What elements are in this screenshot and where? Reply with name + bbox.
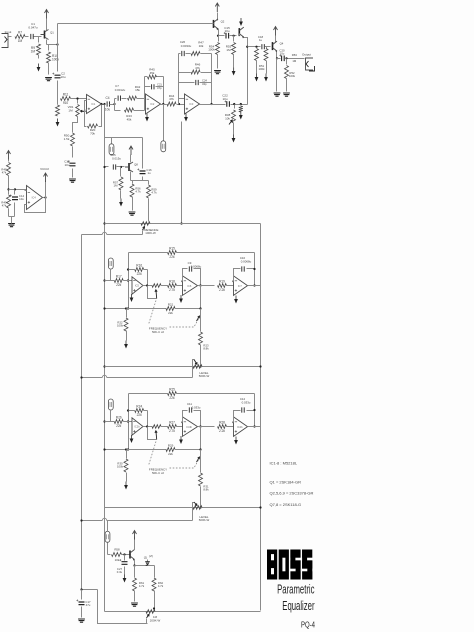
op-amp IC2b: [132, 418, 143, 436]
wire R49 bottom: [8, 209, 10, 217]
VB arrow below R12: [57, 119, 59, 123]
node IC1 out: [100, 103, 102, 105]
wire feedback down: [99, 105, 102, 127]
wire C21 to out: [156, 86, 164, 88]
wire IC4 out: [43, 197, 46, 199]
wire fb vertical: [147, 411, 149, 427]
svg-text:Q2,5,6,9 = 2SC3378-GR: Q2,5,6,9 = 2SC3378-GR: [270, 491, 314, 496]
svg-text:100k: 100k: [52, 58, 59, 62]
svg-text:100k: 100k: [117, 324, 124, 328]
svg-text:Q1: Q1: [50, 31, 54, 35]
svg-text:C21: C21: [157, 83, 162, 87]
svg-text:Q7,8 = 2SK118-G: Q7,8 = 2SK118-G: [270, 502, 302, 507]
wire to R22: [126, 309, 128, 318]
node mid out: [199, 284, 201, 286]
wire Q4 emitter: [276, 52, 278, 59]
wiper band gain: [155, 290, 157, 299]
wire Q3 base stub: [239, 34, 241, 36]
wire R10 top: [48, 45, 50, 51]
transistor Q9: [129, 551, 131, 559]
wire R55 down: [233, 55, 235, 68]
wire right feedback vertical: [254, 394, 256, 427]
logo BOSS: [267, 550, 312, 580]
connector DC jack: [105, 531, 110, 542]
wire to C17: [81, 590, 83, 600]
wire to R58: [108, 554, 111, 556]
svg-text:47k: 47k: [169, 97, 174, 101]
wire R22 down: [126, 331, 128, 341]
node band out: [253, 425, 255, 427]
wire R56 top: [266, 47, 268, 49]
node after C15: [233, 35, 235, 37]
transistor Q3: [238, 28, 240, 36]
wire R22 down: [126, 473, 128, 482]
node Q9 emitter: [133, 564, 135, 566]
node Q2 emitter: [217, 35, 219, 37]
wire R9 top: [38, 37, 40, 43]
wire bus to R17: [105, 421, 115, 423]
wire band out to bus: [248, 285, 261, 287]
wire R48 to R49: [8, 176, 10, 195]
op-amp IC4 buffer: [27, 186, 43, 210]
node IC3 out: [210, 103, 212, 105]
wire branch down: [234, 105, 236, 109]
resistor R16: [135, 268, 144, 272]
transistor Q4: [272, 42, 274, 50]
wire bottom join: [9, 216, 15, 218]
wire bias to IC4+: [9, 189, 27, 191]
wiper freq pot: [197, 316, 200, 321]
V+ rail at Q4: [274, 27, 278, 36]
node band IC1 out: [146, 284, 148, 286]
V+ rail at Q2: [215, 3, 219, 12]
wire wiper riser bottom: [146, 619, 148, 624]
wire oval down: [110, 411, 112, 422]
node row2 left: [103, 365, 105, 367]
wire IC4+ stub: [25, 190, 27, 192]
wire wiper riser 2: [193, 360, 195, 378]
node freq pot column: [199, 307, 201, 309]
node IC2 out: [162, 103, 164, 105]
VB arrow below R55: [233, 68, 235, 72]
wire C18 to Q4: [265, 46, 271, 48]
wire mid out: [198, 426, 215, 428]
svg-text:2.2k: 2.2k: [219, 429, 225, 433]
connector below IC2: [161, 141, 166, 152]
VB arrow below R22: [125, 482, 127, 486]
svg-text:0.047u: 0.047u: [28, 25, 38, 29]
wire to R55: [233, 36, 235, 42]
resistor R17: [114, 279, 123, 283]
ground below R54: [214, 71, 221, 74]
wire R52 top: [286, 59, 288, 65]
wire Q1 source to node: [47, 44, 58, 46]
svg-text:VCC/2: VCC/2: [40, 167, 49, 171]
VB arrow band IC2+: [180, 295, 182, 299]
wire top rail to Q2 base: [58, 23, 212, 25]
hop row2: [102, 377, 106, 379]
VB arrow below R9: [38, 64, 40, 68]
svg-text:1M: 1M: [226, 48, 231, 52]
resistor R10: [47, 52, 51, 63]
capacitor C27: [122, 562, 128, 565]
svg-text:70k: 70k: [90, 131, 95, 135]
wire feedback vertical: [163, 77, 165, 105]
capacitor C25: [113, 164, 115, 169]
node band inv: [127, 279, 129, 281]
gang dashed line: [149, 301, 157, 325]
svg-text:47k: 47k: [2, 204, 7, 208]
wire oval down: [110, 269, 112, 281]
wire Q3 emitter down: [244, 38, 248, 47]
node bus C25: [103, 166, 105, 168]
wire IC4 feedback: [25, 198, 46, 213]
svg-text:100k: 100k: [289, 74, 296, 78]
svg-text:R58: R58: [114, 548, 120, 552]
wire band top feedback right: [177, 252, 255, 254]
V+ arrow at Q3 collector: [240, 18, 242, 22]
wire down to ground: [276, 59, 278, 92]
svg-text:0.0068u: 0.0068u: [241, 260, 252, 264]
resistor R52: [285, 66, 289, 79]
svg-text:100k: 100k: [208, 48, 215, 52]
wire pot row 3: [105, 507, 261, 509]
wire Q9 emitter: [134, 560, 136, 566]
wiper row2: [194, 360, 197, 365]
wire R43 to node: [134, 110, 145, 112]
svg-text:Input: Input: [5, 30, 12, 34]
wire IC1 out: [100, 104, 105, 106]
wire band inv node vertical: [128, 394, 130, 450]
wire to right cap: [234, 269, 241, 282]
node bus band input: [103, 420, 105, 422]
wire wiper riser 3: [193, 503, 195, 521]
svg-text:10k: 10k: [225, 116, 230, 120]
VB arrow band IC3+: [235, 296, 237, 300]
wire C24 to right: [200, 82, 212, 84]
wire R42 to node: [137, 98, 145, 100]
node row3 return join: [80, 519, 82, 521]
node right inv: [232, 421, 234, 423]
op-amp IC5: [132, 277, 143, 295]
svg-text:IC5: IC5: [135, 284, 140, 288]
wire IC3 out: [200, 104, 226, 106]
node column bottom: [199, 506, 201, 508]
VCC/2 rail arrow: [44, 173, 48, 182]
resistor R48: [7, 163, 11, 176]
node right fb: [253, 409, 255, 411]
svg-text:IC1: IC1: [91, 102, 96, 106]
node R52 top: [285, 57, 287, 59]
node bias mid: [7, 188, 9, 190]
wire connector down: [107, 543, 109, 555]
resistor R29: [166, 448, 175, 452]
node C14 top: [14, 188, 16, 190]
svg-text:1M: 1M: [68, 108, 73, 112]
svg-text:IC4: IC4: [32, 196, 37, 200]
wire emitter to C18: [248, 46, 261, 48]
resistor R56b: [130, 184, 134, 197]
capacitor C14: [12, 197, 18, 200]
transistor Q2: [213, 20, 215, 28]
potentiometer LEVEL 1: [193, 365, 202, 369]
svg-text:47k: 47k: [195, 66, 200, 70]
svg-text:0.0012u: 0.0012u: [115, 88, 126, 92]
wire to R23: [200, 457, 202, 473]
svg-text:IC1-8 : M5218L: IC1-8 : M5218L: [270, 461, 298, 466]
svg-text:C4: C4: [105, 96, 109, 100]
svg-text:8.8k: 8.8k: [203, 488, 209, 492]
wiper freq pot: [197, 457, 200, 462]
wire band inv node vertical: [128, 253, 130, 309]
wire to R57: [120, 167, 122, 177]
capacitor C26: [182, 51, 184, 56]
wire cap to out: [194, 269, 201, 286]
wire column to pot row: [200, 487, 202, 508]
node after C22: [233, 103, 235, 105]
svg-text:IC2: IC2: [150, 102, 155, 106]
svg-text:0.033u: 0.033u: [242, 401, 251, 405]
wire to R12: [57, 99, 59, 105]
wire to R22: [126, 450, 128, 459]
node mid out: [199, 425, 201, 427]
resistor R39: [239, 106, 243, 112]
bus vertical x81: [81, 235, 83, 590]
wire IC3 bias column down: [181, 122, 183, 224]
wire column down: [200, 309, 202, 316]
wire down to C16: [142, 138, 144, 169]
node pot top join: [76, 97, 78, 99]
svg-text:0.015u: 0.015u: [112, 157, 121, 161]
resistor R56: [264, 49, 268, 61]
node column bottom: [199, 365, 201, 367]
resistor R31: [199, 473, 203, 486]
svg-text:10u: 10u: [64, 163, 69, 167]
capacitor C24: [196, 80, 198, 85]
wire to R61: [134, 566, 136, 578]
wire R57 down: [120, 191, 122, 199]
wire presence row: [105, 223, 261, 225]
capacitor C2: [55, 75, 61, 78]
potentiometer VOLUME: [146, 610, 155, 614]
wire cap right: [247, 268, 255, 270]
svg-text:4.7k: 4.7k: [135, 190, 141, 194]
resistor R59: [147, 185, 151, 198]
capacitor band C right: [242, 266, 244, 271]
node Output jack: [306, 58, 314, 70]
node bus presence: [103, 222, 105, 224]
wire R9 bottom: [38, 55, 40, 59]
wire C27 down: [124, 567, 126, 575]
wire C2 to R11: [57, 81, 59, 99]
wire C4 to IC2 net: [110, 104, 115, 106]
wire pot row 2: [105, 366, 261, 368]
wiper VR1: [80, 110, 85, 112]
wire mute row: [131, 180, 149, 182]
wire row3 return: [82, 520, 193, 522]
wire to C27: [124, 555, 126, 561]
potentiometer band gain: [152, 284, 161, 288]
wire IC3 inv node vertical: [178, 54, 180, 105]
wire IC3 feedback vertical: [211, 54, 213, 105]
svg-text:(2): (2): [144, 556, 148, 560]
wire R19 to IC right: [227, 426, 234, 428]
wire to C15: [219, 35, 225, 37]
svg-text:200K-W: 200K-W: [150, 618, 161, 622]
wire wiper L: [148, 427, 157, 440]
node bus band input: [103, 279, 105, 281]
node right fb: [253, 268, 255, 270]
svg-text:22k: 22k: [116, 424, 122, 428]
ground below C17: [78, 619, 85, 622]
VB arrow band IC1+: [131, 294, 133, 298]
wire lower bus right: [175, 308, 201, 310]
node Q4 emitter: [276, 57, 278, 59]
resistor R58: [112, 553, 122, 557]
svg-text:15k: 15k: [135, 88, 140, 92]
wire band top feedback: [129, 393, 168, 395]
wire to right cap: [234, 411, 241, 423]
wire C14 down: [14, 203, 16, 217]
resistor R28: [218, 425, 227, 429]
wire R44 to IC3: [177, 104, 185, 106]
wire lower bus right: [175, 449, 201, 451]
node mid inv: [181, 421, 183, 423]
capacitor C1: [31, 34, 33, 39]
wire V+ to Q8: [130, 155, 132, 163]
svg-text:C24: C24: [202, 79, 207, 83]
wire wiper L: [148, 286, 157, 299]
wire band lower bus: [105, 308, 167, 310]
svg-text:R28: R28: [219, 420, 225, 424]
wire feedback to IC1-: [85, 101, 87, 127]
svg-text:R53: R53: [292, 53, 298, 57]
wire R18 to IC mid: [177, 426, 183, 428]
wire to C7: [115, 98, 117, 100]
svg-text:R18: R18: [169, 279, 175, 283]
wire R58 to Q9: [122, 554, 130, 556]
VB arrow band IC3+: [235, 437, 237, 441]
wire to top rail: [57, 24, 59, 45]
svg-text:10u: 10u: [19, 197, 24, 201]
capacitor C17: [79, 602, 85, 605]
wire cap to out: [194, 411, 201, 427]
node lower bus left: [103, 307, 105, 309]
svg-text:0.033u: 0.033u: [192, 406, 201, 410]
wire R51 down: [256, 61, 258, 74]
wire to C14: [14, 190, 16, 195]
wiper presence: [143, 227, 145, 231]
node bias column join: [180, 222, 182, 224]
svg-text:1M: 1M: [31, 50, 36, 54]
svg-text:50K-C x2: 50K-C x2: [152, 471, 164, 475]
node row2 right: [259, 365, 261, 367]
wire bottom row: [105, 611, 261, 613]
svg-text:IC3b: IC3b: [187, 425, 193, 429]
wire to ground: [11, 217, 13, 224]
capacitor C13: [70, 163, 76, 166]
svg-text:47k: 47k: [2, 171, 7, 175]
svg-text:Output: Output: [302, 53, 311, 57]
resistor R47: [191, 52, 200, 56]
op-amp IC7: [234, 276, 248, 296]
svg-text:22k: 22k: [168, 452, 173, 456]
node R51 top: [255, 46, 257, 48]
resistor R50: [71, 133, 75, 146]
wire Q2 emitter: [218, 29, 220, 36]
ground bias: [8, 224, 15, 227]
gang dashed line 2: [170, 317, 200, 327]
node R62 pot join: [153, 607, 155, 609]
potentiometer band gain: [152, 425, 161, 429]
node band bus left: [127, 307, 129, 309]
VB arrow IC2+: [146, 114, 148, 118]
resistor R22: [124, 318, 128, 331]
wire wiper riser: [142, 231, 144, 235]
wire mid out down to bus: [200, 286, 202, 309]
node main bus top: [103, 103, 105, 105]
resistor R27: [168, 425, 177, 429]
wire V+ to Q2: [217, 13, 219, 21]
wire pot top: [77, 99, 79, 104]
svg-text:22k: 22k: [116, 283, 122, 287]
svg-text:22k: 22k: [169, 255, 175, 259]
resistor R44: [167, 102, 176, 106]
ground below R52: [283, 93, 290, 96]
svg-text:100k: 100k: [258, 67, 265, 71]
wire: [34, 36, 42, 38]
wire R17 to IC: [124, 280, 133, 282]
wire band lower bus: [105, 449, 167, 451]
wire Q1 source: [46, 40, 48, 45]
wire mid out: [198, 285, 215, 287]
gang dashed line: [149, 442, 157, 466]
svg-text:R29: R29: [168, 443, 174, 447]
wire R11 to IC1: [71, 98, 87, 100]
node R57 top: [120, 166, 122, 168]
wire column down: [200, 450, 202, 457]
resistor R21: [166, 307, 175, 311]
ground below C13: [69, 179, 76, 182]
capacitor C21: [152, 84, 154, 89]
svg-text:500K-W: 500K-W: [199, 374, 210, 378]
node lower bus left: [103, 448, 105, 450]
node band fb left: [127, 409, 129, 411]
svg-text:R27: R27: [169, 420, 175, 424]
VB arrow below R56: [265, 74, 267, 78]
node C17 top: [80, 588, 82, 590]
V+ rail bias: [7, 151, 11, 160]
op-amp IC6: [183, 276, 198, 296]
ground below R10: [45, 78, 52, 81]
node Q1 source junction: [56, 43, 58, 45]
diode D1: [146, 562, 150, 566]
wire fb right: [144, 269, 148, 271]
svg-text:Q8: Q8: [134, 163, 138, 167]
wire C25 to Q8 gate: [117, 166, 125, 168]
op-amp IC1a: [87, 95, 102, 114]
wire to C20: [277, 58, 281, 60]
node VCC/2: [44, 196, 46, 198]
wire to DC connector: [107, 521, 109, 532]
svg-text:R15: R15: [169, 246, 175, 250]
capacitor band C mid: [189, 266, 191, 271]
svg-text:R25: R25: [169, 387, 175, 391]
wire to fb resistor: [129, 410, 135, 412]
svg-text:Parametric: Parametric: [277, 584, 314, 597]
wire R18 to IC mid: [177, 285, 183, 287]
svg-text:Q1 = 2SK184-GR: Q1 = 2SK184-GR: [270, 480, 302, 485]
